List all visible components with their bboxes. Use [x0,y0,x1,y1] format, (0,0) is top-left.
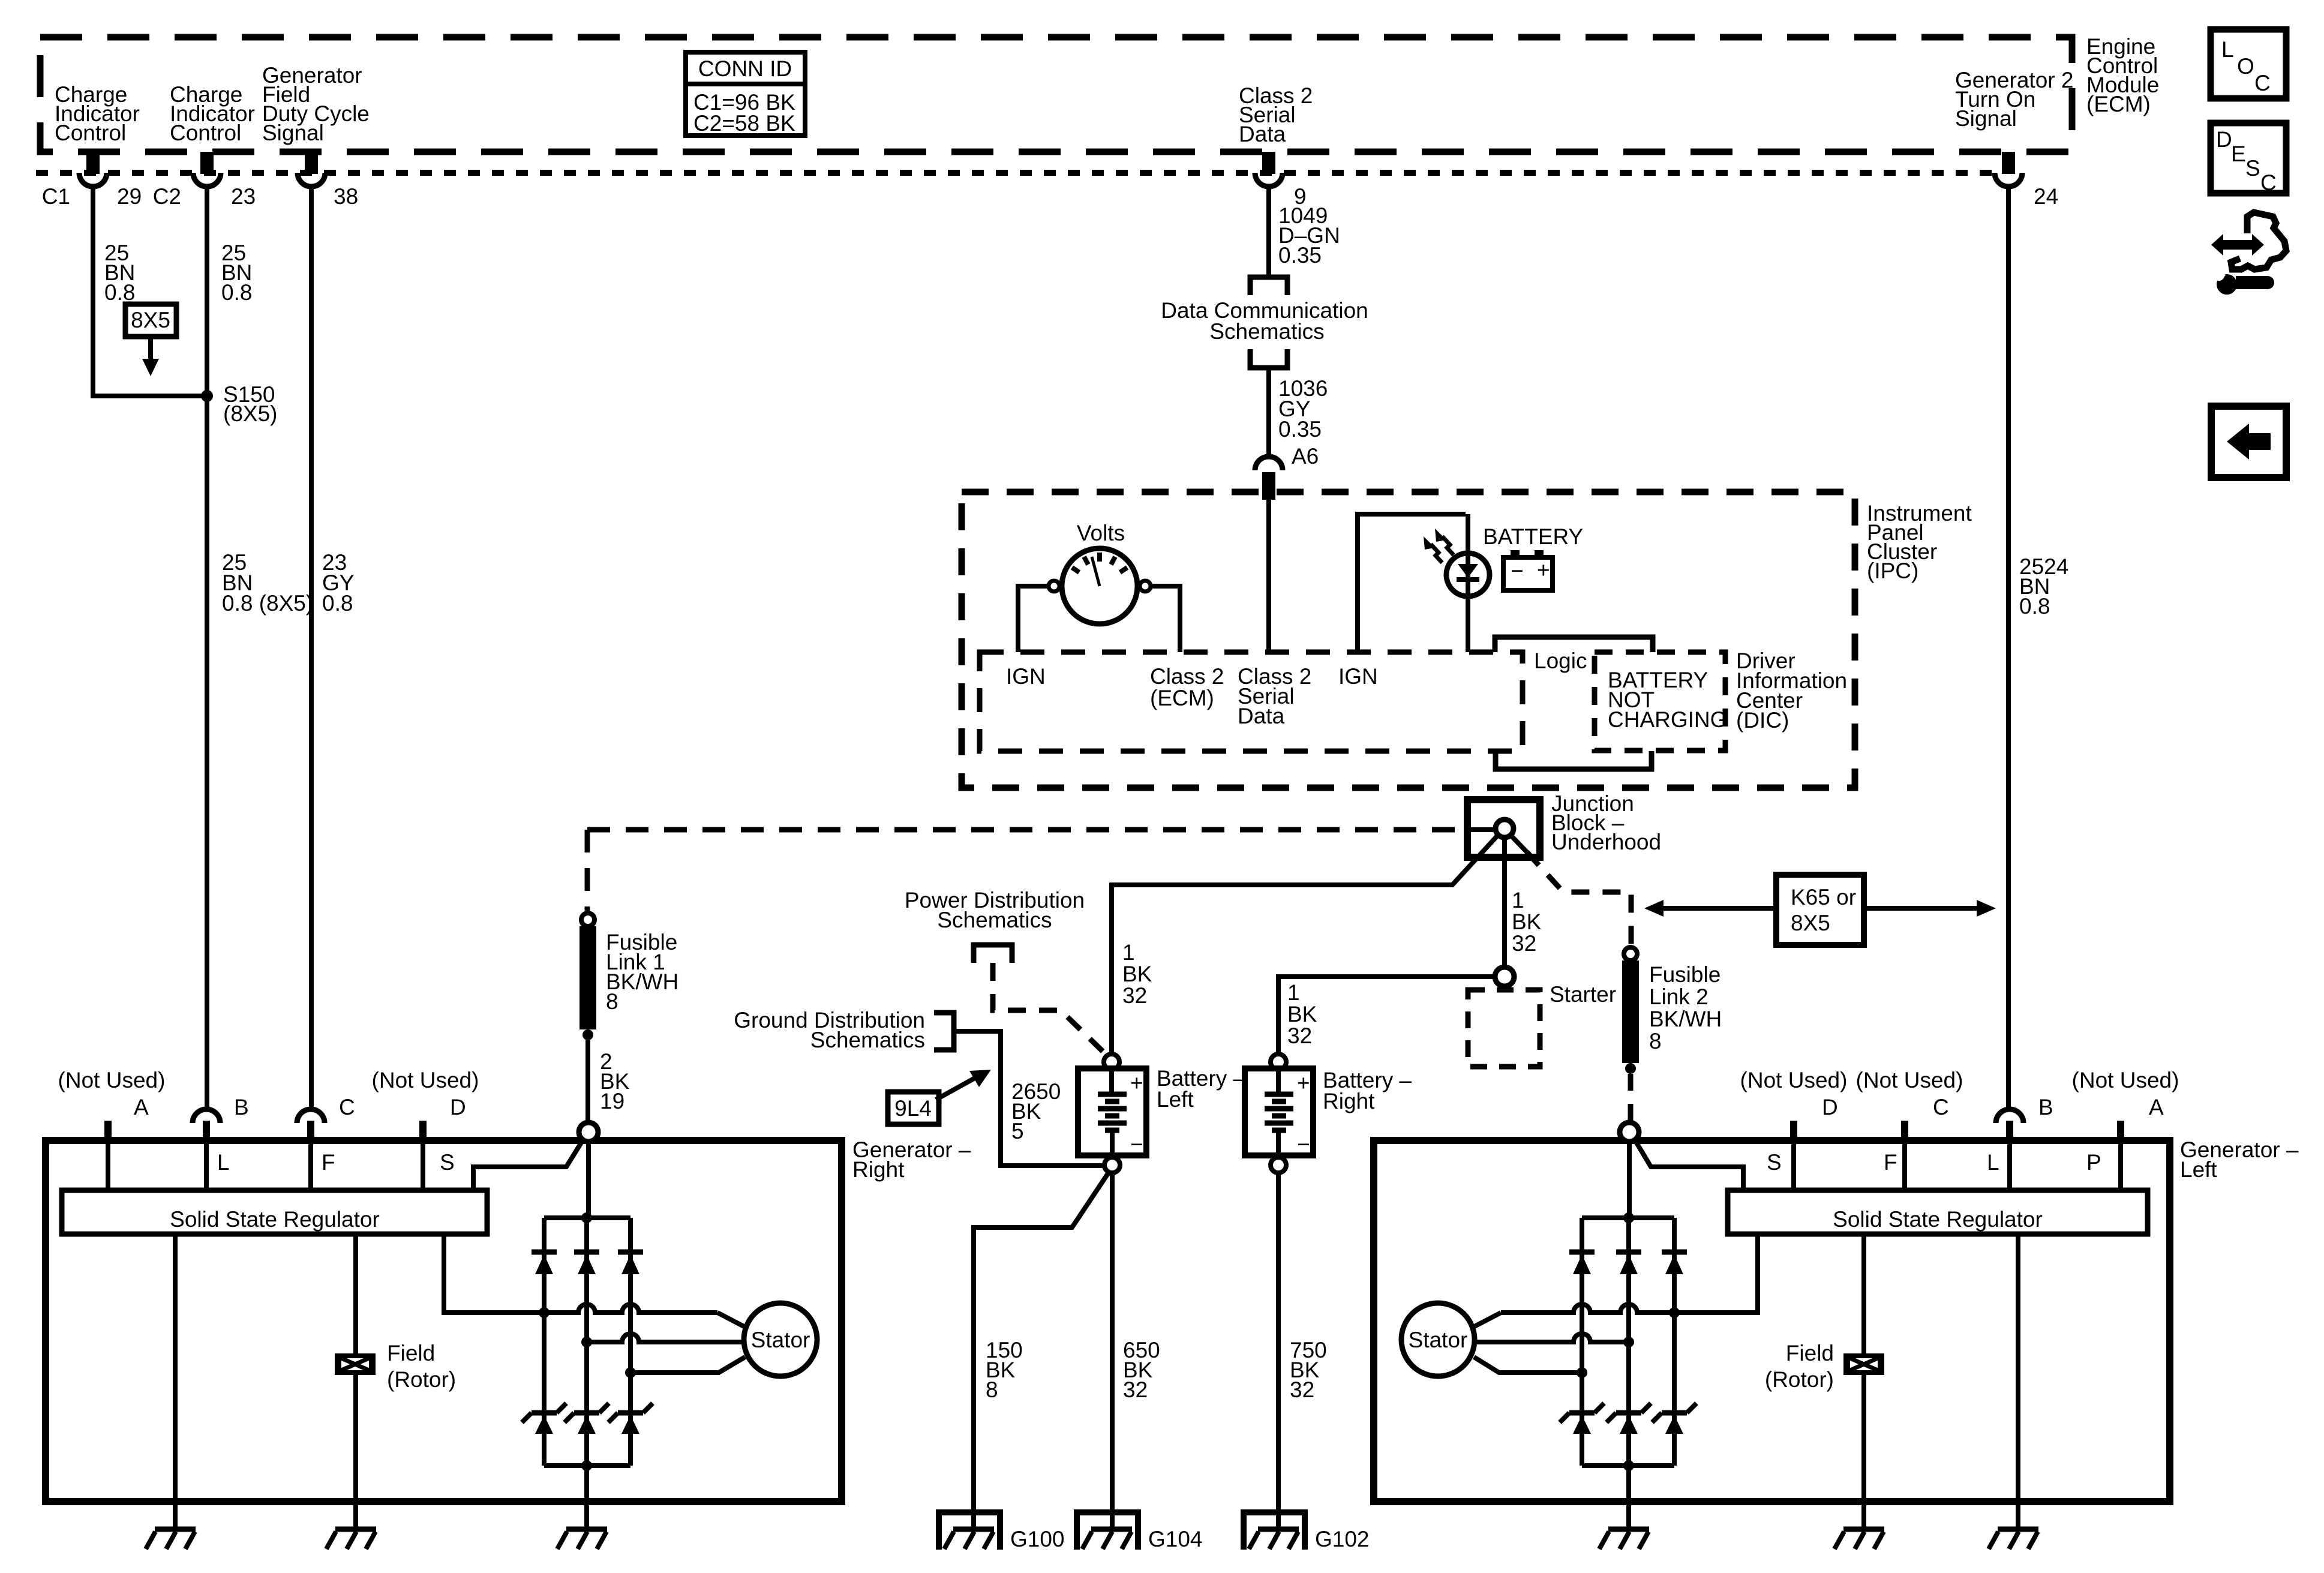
svg-text:8X5: 8X5 [1791,911,1830,935]
wire: telltale LED branch [1466,514,1470,652]
off-page bracket (bottom) from data communication schematics [1250,349,1287,368]
svg-text:Schematics: Schematics [1209,319,1324,344]
battery left positive terminal [1104,1054,1119,1070]
connector pin C1 terminal 29 [79,152,107,187]
pin stub A [106,1140,110,1190]
8X5 reference box [125,304,176,337]
svg-text:(IPC): (IPC) [1867,559,1918,583]
svg-text:Right: Right [852,1157,905,1182]
rectifier top rail (left) [1582,1215,1674,1220]
zener 3 (left) [1560,1403,1604,1434]
svg-text:Solid State Regulator: Solid State Regulator [1833,1207,2043,1232]
pin A generator right [104,1121,112,1140]
svg-text:−: − [1511,559,1524,583]
svg-text:Stator: Stator [1409,1328,1468,1352]
field wire (left) [1861,1234,1866,1529]
DESC icon box [2211,123,2286,195]
junction block terminal circle [1496,819,1514,837]
svg-text:(Not Used): (Not Used) [372,1068,479,1092]
IPC internal connector dashed box [980,652,1523,751]
svg-text:1: 1 [1122,940,1135,965]
stator (right) [744,1303,817,1376]
svg-text:D: D [1822,1095,1838,1119]
pin C generator right [297,1109,325,1140]
wire 2 BK 19 [585,1040,590,1122]
svg-text:C2=58 BK: C2=58 BK [693,111,795,136]
regulator ground wire (left) [2016,1234,2020,1529]
battery right negative terminal [1271,1157,1286,1173]
junction dot bottom rail (left) [1623,1460,1634,1471]
dashed wire power distribution to battery left [993,963,1107,1056]
svg-text:Underhood: Underhood [1551,830,1661,854]
svg-text:Fusible: Fusible [1649,962,1721,987]
svg-text:G102: G102 [1315,1527,1370,1551]
svg-text:0.8: 0.8 [2019,594,2050,619]
battery telltale icon [1503,550,1553,590]
starter junction circle [1495,967,1514,986]
9L4 reference box [888,1092,939,1124]
back arrow icon box [2211,406,2286,478]
svg-text:(Not Used): (Not Used) [1856,1068,1963,1092]
wire: gauge class 2 side [1151,586,1180,652]
dashed wire from fusible link 1 to junction block [587,827,1467,833]
field rotor symbol (left) [1843,1353,1884,1375]
stator phase A wire (right) [539,1304,717,1313]
diode 3 (left) [1569,1252,1595,1274]
battery right [1245,1068,1313,1157]
LOC icon box [2211,29,2286,98]
fusible link 1 bottom splice [582,1029,593,1040]
svg-text:IGN: IGN [1338,664,1378,689]
rectifier top rail (right) [544,1215,630,1220]
svg-text:0.8 (8X5): 0.8 (8X5) [222,591,313,616]
off-page bracket ground distribution [934,1013,954,1050]
battery telltale LED [1446,553,1490,596]
svg-text:BK/WH: BK/WH [1649,1007,1722,1031]
regulator to rectifier wire (left) [1679,1234,1758,1313]
svg-text:(Not Used): (Not Used) [58,1068,166,1092]
svg-text:0.35: 0.35 [1278,243,1322,268]
zener 2 (right) [565,1403,609,1434]
junction dot phase C (left) [1577,1367,1587,1378]
solid state regulator (left) [1728,1190,2148,1234]
regulator ground wire (right) [173,1234,178,1529]
svg-text:8: 8 [1649,1029,1662,1053]
branch to 150 BK 8 [974,1172,1109,1529]
svg-text:D: D [2216,127,2232,152]
stator phase B wire (left) [1475,1334,1629,1342]
svg-text:19: 19 [600,1089,624,1113]
svg-text:(Rotor): (Rotor) [387,1367,456,1392]
svg-text:Signal: Signal [1955,106,2017,131]
svg-text:−: − [1130,1132,1143,1157]
wire: generator field duty cycle 23 GY [309,187,314,1110]
junction dot phase A [539,1307,550,1318]
ground G104 [1074,1512,1141,1550]
vehicle with wrench icon [2211,212,2286,295]
BAT sense wire (right) [473,1139,584,1190]
voltmeter gauge [1049,548,1151,624]
zener 2 (left) [1607,1403,1651,1434]
junction dot phase C [625,1367,636,1378]
svg-text:0.8: 0.8 [104,280,135,305]
Engine Control Module (ECM) dashed box [40,37,2072,152]
off-page bracket (top) to data communication schematics [1250,277,1287,295]
svg-text:0.8: 0.8 [322,591,353,616]
ground G102 [1241,1512,1308,1550]
Generator - Left box [1374,1140,2170,1502]
regulator to rectifier wire (right) [444,1234,539,1313]
dashed wire drop to fusible link 1 [585,830,590,911]
connector pin terminal 38 [298,152,325,187]
BAT sense wire (left) [1634,1139,1743,1190]
wire 1 BK 32 battery left to junction block [1112,835,1498,1054]
starter dashed box [1468,990,1540,1067]
field rotor symbol (right) [335,1353,376,1375]
svg-text:C: C [2254,71,2271,95]
wire from BAT circle into rectifier [586,1142,591,1218]
pin stub L [204,1140,209,1190]
wire 650 BK 32 to G104 [1110,1173,1115,1529]
svg-text:8: 8 [606,989,618,1014]
pin stub S [1791,1140,1796,1190]
svg-text:(Not Used): (Not Used) [1740,1068,1848,1092]
wire: charge indicator control C1-29 (25 BN 0.8) [93,187,203,396]
ground (rectifier left) [1599,1529,1649,1549]
ground (regulator left) [1989,1529,2038,1549]
svg-text:8: 8 [986,1377,998,1402]
svg-text:Field: Field [387,1341,435,1365]
fusible link 2 bottom splice [1625,1063,1636,1074]
rectifier bottom rail (right) [544,1463,630,1468]
svg-text:C1: C1 [42,184,70,209]
svg-text:F: F [1884,1150,1897,1175]
svg-text:24: 24 [2034,184,2058,209]
solid state regulator (right) [62,1190,487,1234]
junction block square [1467,800,1540,857]
svg-text:L: L [1987,1150,1999,1175]
Generator - Right box [46,1140,842,1502]
Driver Information Center dashed box [1595,652,1725,751]
svg-text:(DIC): (DIC) [1736,708,1789,733]
svg-text:A: A [2149,1095,2164,1119]
svg-text:E: E [2231,142,2246,166]
wire: class 2 serial data inside IPC [1266,500,1271,652]
svg-text:32: 32 [1287,1023,1312,1048]
svg-text:A6: A6 [1292,444,1319,469]
rectifier column 2 (right) [584,1218,589,1466]
svg-text:B: B [234,1095,249,1119]
generator right BAT terminal circle [579,1122,598,1142]
ECM connector dotted line [36,170,1995,176]
K65 or 8X5 box [1776,875,1864,945]
svg-text:B: B [2038,1095,2053,1119]
wire 1 BK 32 junction block to starter [1502,837,1507,967]
svg-text:(Not Used): (Not Used) [2072,1068,2179,1092]
pin stub S [421,1140,425,1190]
svg-text:−: − [1297,1132,1310,1157]
ground (field left) [1834,1529,1884,1549]
svg-text:C: C [339,1095,355,1119]
Instrument Panel Cluster (IPC) dashed box [962,492,1855,788]
svg-text:29: 29 [117,184,142,209]
svg-text:S: S [440,1150,455,1175]
fusible link 1 element [580,926,596,1029]
svg-text:Data: Data [1239,122,1286,146]
fusible link 2 element [1622,960,1639,1063]
svg-text:CONN ID: CONN ID [698,56,792,81]
ground (rectifier right) [557,1529,607,1549]
svg-text:L: L [2221,37,2234,62]
svg-text:G100: G100 [1010,1527,1065,1551]
pin B generator right [193,1109,220,1140]
svg-text:C: C [1933,1095,1949,1119]
stator phase C wire (right) [630,1357,745,1373]
rectifier bottom rail (left) [1582,1463,1674,1468]
logic block outline (top) [1495,637,1653,652]
logic block outline (bottom) [1496,751,1652,769]
junction dot phase B (left) [1623,1337,1634,1347]
pin stub P [2118,1140,2123,1190]
solid stub from junction block circle [1511,836,1527,852]
svg-text:+: + [1537,558,1550,583]
svg-text:+: + [1297,1071,1310,1095]
svg-text:1: 1 [1287,980,1300,1005]
connector pin C2 terminal 23 [193,152,221,187]
rectifier column 3 (left) [1580,1218,1584,1466]
8X5 arrow [148,337,153,360]
diode 1 (left) [1662,1252,1687,1274]
svg-text:CHARGING: CHARGING [1608,707,1727,732]
svg-text:+: + [1130,1071,1143,1095]
svg-text:1: 1 [1512,888,1524,912]
svg-text:(Rotor): (Rotor) [1765,1367,1834,1392]
pin stub F [1902,1140,1907,1190]
rectifier column 2 (left) [1626,1218,1631,1466]
svg-text:38: 38 [334,184,358,209]
9L4 arrow [936,1078,975,1100]
svg-text:Class 2: Class 2 [1150,664,1224,689]
svg-text:BK: BK [1122,962,1152,986]
svg-text:F: F [322,1150,335,1175]
fusible link 2 top terminal [1624,947,1637,960]
dashed wire junction block to fusible link 2 [1527,852,1631,945]
svg-text:0.8: 0.8 [221,280,252,305]
svg-text:S: S [2245,156,2260,181]
svg-text:32: 32 [1512,931,1536,956]
pin D generator right [419,1121,427,1140]
svg-text:Starter: Starter [1550,982,1616,1007]
wire from BAT circle into rectifier (left) [1627,1142,1632,1218]
svg-text:BK: BK [1512,909,1542,934]
svg-text:0.35: 0.35 [1278,417,1322,442]
svg-text:Data: Data [1238,704,1285,728]
zener 1 (left) [1652,1403,1697,1434]
zener 3 (right) [608,1403,653,1434]
off-page bracket power distribution [974,945,1012,963]
svg-text:C: C [2260,170,2277,195]
connector A6 into IPC [1255,457,1283,470]
svg-text:5: 5 [1011,1119,1024,1143]
svg-text:O: O [2237,54,2254,79]
svg-text:Left: Left [2180,1157,2217,1182]
junction dot phase B [581,1337,592,1347]
rectifier column 1 (left) [1672,1218,1677,1466]
LED light arrow 2 [1431,544,1442,563]
battery left negative terminal [1104,1157,1120,1173]
junction dot bottom rail [581,1460,592,1471]
wire: charge indicator control C2-23 (25 BN) [205,187,209,1110]
wire 2650 BK 5 [954,1031,1103,1166]
svg-text:(8X5): (8X5) [223,401,277,426]
svg-text:Field: Field [1786,1341,1834,1365]
wire 1 BK 32 battery right to starter junction [1278,977,1495,1054]
svg-text:Solid State Regulator: Solid State Regulator [170,1207,380,1232]
svg-text:C2: C2 [153,184,181,209]
svg-text:S: S [1767,1150,1782,1175]
K65 left arrowhead [1644,900,1664,917]
svg-text:L: L [217,1150,230,1175]
pin C generator left [1901,1121,1908,1140]
junction dot top rail [581,1212,592,1223]
rectifier column 3 (right) [628,1218,633,1466]
connector pin terminal 9 [1255,152,1283,187]
battery left [1078,1068,1146,1157]
svg-text:(ECM): (ECM) [1150,686,1214,710]
K65 right arrowhead [1977,900,1996,917]
svg-text:Stator: Stator [751,1328,810,1352]
svg-text:9L4: 9L4 [894,1096,932,1121]
svg-text:BATTERY: BATTERY [1483,524,1583,549]
generator left BAT terminal circle [1620,1122,1639,1142]
diode 3 (right) [618,1252,643,1274]
pin B generator left [1996,1109,2023,1140]
CONN ID table [686,52,805,136]
wire: class 2 serial data 1036 GY [1266,368,1271,455]
battery right positive terminal [1271,1054,1286,1070]
rectifier column 1 (right) [542,1218,547,1466]
svg-text:Link 2: Link 2 [1649,984,1709,1009]
pin D generator left [1790,1121,1797,1140]
rectifier ground wire (left) [1626,1466,1631,1529]
ground (field right) [326,1529,376,1549]
pin stub F [308,1140,313,1190]
svg-text:Control: Control [55,121,126,145]
svg-text:32: 32 [1122,983,1147,1008]
zener 1 (right) [522,1403,566,1434]
connector pin terminal 24 [1995,152,2022,187]
dashed wire fusible link 2 to generator left [1628,1074,1634,1121]
stator (left) [1401,1303,1475,1376]
ground G100 [936,1512,1003,1550]
svg-text:G104: G104 [1148,1527,1203,1551]
svg-text:8X5: 8X5 [131,308,170,332]
svg-text:Left: Left [1157,1087,1194,1112]
diode 2 (left) [1616,1252,1641,1274]
field wire (right) [353,1234,358,1529]
wire: generator 2 turn on signal 2524 BN [2006,187,2011,1109]
diode 1 (right) [532,1252,557,1274]
K65 arrow line left [1662,906,1776,911]
svg-text:A: A [134,1095,149,1119]
stator phase B wire (right) [587,1334,743,1342]
svg-text:Volts: Volts [1077,521,1125,545]
svg-text:BK: BK [1287,1002,1317,1026]
svg-text:D: D [450,1095,466,1119]
rectifier ground wire (right) [584,1466,589,1529]
svg-text:Right: Right [1323,1089,1375,1113]
svg-text:32: 32 [1123,1377,1148,1402]
LED light arrow 1 [1442,536,1454,555]
diode 2 (right) [574,1252,599,1274]
svg-text:Schematics: Schematics [810,1028,925,1052]
splice S150 [201,390,213,402]
svg-text:Control: Control [170,121,241,145]
junction dot phase A (left) [1669,1307,1680,1318]
svg-text:Signal: Signal [262,121,324,145]
wire: gauge IGN side [1018,586,1049,652]
wire: telltale IGN feed [1358,514,1466,652]
ground (regulator right) [146,1529,196,1549]
wire into junction block [1467,827,1496,832]
svg-text:P: P [2086,1150,2101,1175]
wire 750 BK 32 to G102 [1276,1173,1281,1529]
pin A generator left [2117,1121,2124,1140]
svg-text:32: 32 [1290,1377,1314,1402]
wire: class 2 serial data 1049 D-GN [1266,187,1271,275]
fusible link 1 top terminal [581,913,594,926]
svg-text:(ECM): (ECM) [2086,92,2151,116]
svg-text:K65 or: K65 or [1791,885,1856,909]
svg-text:23: 23 [231,184,256,209]
stator phase A wire (left) [1501,1304,1679,1313]
junction dot top rail (left) [1623,1212,1634,1223]
pin stub L [2007,1140,2012,1190]
stator phase C wire (left) [1474,1357,1582,1373]
K65 arrow line right [1864,906,1978,911]
svg-text:Logic: Logic [1534,649,1587,673]
svg-text:Schematics: Schematics [937,908,1052,932]
svg-text:IGN: IGN [1006,664,1046,689]
